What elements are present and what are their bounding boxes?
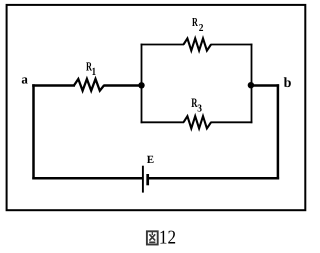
svg-text:a: a	[21, 72, 28, 87]
resistor R1 label	[86, 60, 96, 78]
battery E short plate	[146, 174, 149, 185]
battery E label	[147, 154, 154, 166]
caption glyph (figure character)	[147, 231, 158, 244]
svg-text:3: 3	[197, 104, 202, 115]
wire R1 to left junction	[104, 84, 143, 87]
svg-text:R: R	[192, 15, 198, 29]
caption number 12	[159, 228, 176, 249]
svg-text:E: E	[147, 154, 154, 166]
junction dot left	[138, 82, 144, 88]
wire box bottom-left segment	[141, 121, 184, 123]
wire box top-left segment	[141, 44, 184, 46]
wire parallel-box left vertical	[141, 44, 143, 124]
wire box top-right segment	[211, 44, 253, 46]
node b	[284, 76, 292, 91]
junction dot right	[248, 82, 254, 88]
svg-text:1: 1	[92, 66, 96, 78]
svg-text:b: b	[284, 76, 292, 91]
wire bottom-left segment	[32, 177, 142, 180]
wire node a to R1	[32, 84, 75, 87]
svg-text:12: 12	[159, 228, 176, 249]
resistor R3 label	[191, 95, 202, 115]
wire right vertical	[277, 84, 280, 179]
resistor R3 zigzag	[184, 116, 212, 128]
svg-text:2: 2	[199, 23, 204, 34]
wire bottom-right segment	[149, 177, 279, 180]
battery E long plate	[142, 166, 144, 193]
resistor R2 zigzag	[184, 38, 212, 50]
wire left vertical	[32, 84, 35, 179]
resistor R1 zigzag	[74, 79, 104, 91]
wire parallel-box right vertical	[251, 44, 253, 124]
wire box bottom-right segment	[211, 121, 253, 123]
resistor R2 label	[192, 15, 203, 34]
wire right junction to node b corner	[251, 84, 279, 87]
node a	[21, 72, 28, 87]
